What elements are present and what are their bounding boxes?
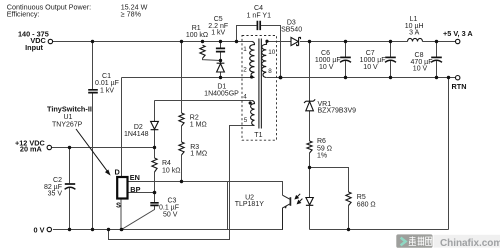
capacitor C1	[65, 21, 442, 206]
svg-text:TNY267P: TNY267P	[52, 121, 83, 128]
polarity dot primary	[250, 75, 253, 78]
junction: D1 anode at drain wire	[219, 76, 222, 79]
label R2	[159, 115, 207, 219]
junction: C1 at input rail	[91, 40, 94, 43]
label C4	[247, 5, 271, 20]
junction: D3 cathode node	[308, 40, 311, 43]
junction: C8 at +5V rail	[435, 40, 438, 43]
wire: +12V rail	[50, 147, 155, 149]
wire: C4 top loop primary to secondary	[237, 26, 281, 78]
wire: C5 vertical segments	[220, 42, 222, 61]
header text	[7, 2, 148, 18]
wire: C3 vertical and diagonal to source	[122, 193, 155, 230]
svg-text:R6: R6	[317, 138, 326, 145]
svg-text:C7: C7	[366, 50, 375, 57]
transformer T1 dashed box	[242, 36, 277, 141]
resistor R6	[307, 141, 312, 153]
svg-text:EN: EN	[130, 173, 140, 182]
capacitor C3	[150, 203, 158, 206]
capacitor C8 polarized	[431, 56, 442, 58]
wire: right riser RTN to secondary bottom rail	[448, 78, 450, 230]
opto LED	[306, 198, 313, 206]
svg-text:0 V: 0 V	[34, 226, 45, 235]
capacitor C4	[257, 21, 260, 30]
svg-text:C1: C1	[102, 73, 111, 80]
wire: C7 branch	[390, 42, 392, 78]
svg-text:10 V: 10 V	[413, 65, 428, 72]
svg-text:D: D	[115, 167, 120, 176]
label D3	[281, 19, 302, 33]
wire: feedback chain VR1 R6 LED vertical	[309, 42, 311, 230]
capacitor C5	[216, 48, 225, 51]
label C8	[411, 52, 433, 73]
diode D3 schottky	[291, 37, 301, 45]
opto phototransistor	[283, 195, 291, 229]
junction: C8 at RTN rail	[435, 76, 438, 79]
node: 0V terminal	[47, 227, 51, 231]
label VR1	[317, 101, 376, 208]
polarity dot secondary	[265, 40, 268, 43]
wire: secondary pin 10 to D3	[267, 41, 292, 43]
svg-text:5: 5	[244, 117, 248, 124]
svg-text:20 mA: 20 mA	[20, 145, 43, 154]
svg-text:1N4148: 1N4148	[124, 131, 149, 138]
wire: C2 branch vertical	[69, 148, 71, 184]
junction: R4 C3 at BP wire	[153, 191, 157, 195]
node: +12VDC terminal	[47, 145, 51, 149]
zener VR1	[304, 99, 315, 110]
transformer core	[259, 39, 262, 129]
svg-text:1 kV: 1 kV	[211, 29, 225, 36]
wire: bias return detour pin 5	[109, 126, 255, 240]
resistor R4	[152, 158, 157, 172]
svg-text:Chinafix.com: Chinafix.com	[440, 238, 500, 249]
wire: C8 branch	[436, 42, 438, 78]
wire: drain horizontal to transformer pin 2	[122, 77, 255, 79]
svg-text:R4: R4	[162, 160, 171, 167]
svg-text:0.1 µF: 0.1 µF	[159, 205, 179, 212]
label C5	[208, 16, 228, 36]
svg-text:1 nF Y1: 1 nF Y1	[247, 13, 271, 20]
svg-text:C3: C3	[168, 197, 177, 204]
wire: R6 node to R5	[310, 168, 349, 230]
junction: bias return at ground rail	[107, 228, 110, 231]
svg-text:4: 4	[243, 93, 247, 100]
resistor R1	[200, 45, 205, 58]
wire: output rail after L1 to +5V terminal	[423, 41, 456, 43]
wire: C6 branch	[345, 42, 347, 78]
transformer primary winding pins 1-2	[250, 42, 255, 78]
capacitor C2 polarized	[65, 183, 75, 185]
wire: C1 branch vertical	[92, 42, 94, 90]
wire: U1 S pin to ground rail	[120, 199, 122, 230]
capacitor C7 polarized	[385, 56, 396, 58]
wire: D1 vertical segments	[220, 61, 222, 78]
wire: D2 to +12V rail vertical	[154, 100, 156, 147]
svg-text:C8: C8	[415, 52, 424, 59]
svg-text:Input: Input	[25, 43, 43, 52]
junction: C2 at ground rail	[68, 228, 71, 231]
svg-text:8: 8	[268, 68, 272, 75]
junction: C4 at pin 8 RTN wire	[279, 76, 283, 80]
svg-text:Efficiency:: Efficiency:	[7, 9, 40, 18]
junction: C1 at ground rail	[91, 228, 94, 231]
junction: C4 at input rail	[235, 40, 238, 43]
watermark badge	[396, 234, 500, 248]
junction: S pin C3 at ground rail	[120, 228, 124, 232]
svg-text:D3: D3	[287, 19, 296, 26]
transformer bias winding pins 4-5	[251, 101, 255, 126]
opto emitter arrowhead	[284, 206, 287, 209]
svg-text:TLP181Y: TLP181Y	[235, 201, 265, 208]
wire: R4 vertical from +12V rail to BP junction	[154, 148, 156, 193]
svg-text:C6: C6	[321, 50, 330, 57]
junction: D2 R4 at +12V rail	[153, 146, 156, 149]
svg-text:SB540: SB540	[281, 26, 302, 33]
opto light arrows	[295, 194, 302, 204]
label D1	[204, 83, 239, 97]
wire: primary ground rail to opto emitter	[53, 209, 283, 230]
junction: C7 at +5V rail	[389, 40, 392, 43]
diode D1 cathode up	[151, 37, 316, 205]
svg-text:680 Ω: 680 Ω	[357, 201, 376, 208]
diode D2 cathode down	[151, 121, 159, 129]
wire: R1 bottom diagonal to clamp node	[203, 58, 221, 60]
svg-text:10 kΩ: 10 kΩ	[162, 167, 180, 174]
inductor L1	[408, 38, 423, 41]
wire: top input rail	[53, 41, 252, 43]
junction: R5 at secondary bottom rail	[347, 228, 350, 231]
svg-text:1N4005GP: 1N4005GP	[204, 91, 239, 98]
svg-text:1 MΩ: 1 MΩ	[190, 121, 207, 128]
wire: D3 cathode to output rail	[300, 41, 408, 43]
U1 label arrow	[76, 129, 109, 173]
label L1	[405, 16, 424, 36]
junction: C6 at +5V rail	[344, 40, 347, 43]
wire: bias winding pin 4 horizontal	[155, 100, 252, 102]
node: VDC input terminal	[48, 39, 52, 43]
svg-text:50 V: 50 V	[163, 212, 178, 219]
svg-text:10: 10	[268, 49, 276, 56]
svg-text:D1: D1	[217, 83, 226, 90]
junction: R6 R5 node	[308, 166, 311, 169]
junction: R3 at EN wire	[180, 180, 183, 183]
wire: secondary bottom rail	[310, 229, 449, 231]
U1 TinySwitch box	[117, 177, 127, 199]
svg-text:TinySwitch-II: TinySwitch-II	[47, 104, 92, 113]
junction: R2 at input rail	[180, 40, 183, 43]
resistor R5	[346, 192, 351, 206]
svg-text:D2: D2	[134, 124, 143, 131]
label R1	[186, 25, 208, 39]
svg-text:10 V: 10 V	[319, 64, 334, 71]
label U2 TLP181Y	[235, 195, 265, 208]
label C2	[44, 177, 62, 198]
junction: R1 at input rail	[201, 40, 204, 43]
label D2	[124, 124, 149, 138]
junction: C6 at RTN rail	[344, 76, 347, 79]
junction: clamp node R1 C5 D1	[219, 59, 222, 62]
node label: 140-375 VDC Input	[15, 29, 49, 234]
svg-text:U1: U1	[64, 114, 73, 121]
resistor R3	[179, 142, 184, 155]
capacitor C6 polarized	[340, 56, 351, 58]
terminal circles	[47, 39, 460, 231]
svg-text:59 Ω: 59 Ω	[317, 145, 332, 152]
label C6	[315, 50, 341, 71]
svg-text:3 A: 3 A	[409, 29, 419, 36]
polarity dot bias	[249, 101, 252, 104]
svg-text:T1: T1	[254, 132, 262, 139]
svg-text:C4: C4	[254, 5, 263, 12]
svg-text:35 V: 35 V	[48, 191, 63, 198]
wire: drain riser to U1 D pin	[121, 78, 123, 178]
svg-text:1 MΩ: 1 MΩ	[190, 151, 207, 158]
svg-text:0.01 µF: 0.01 µF	[95, 80, 119, 87]
svg-text:1 kV: 1 kV	[100, 88, 114, 95]
label C7	[360, 50, 386, 71]
wire: BP wire	[128, 192, 155, 194]
node: +5V output terminal	[456, 39, 460, 43]
svg-text:1%: 1%	[317, 153, 327, 160]
wire: U2 box left edge	[227, 182, 229, 230]
svg-text:BP: BP	[130, 185, 140, 194]
svg-text:≥ 78%: ≥ 78%	[121, 9, 142, 18]
svg-text:+5 V, 3 A: +5 V, 3 A	[443, 29, 473, 38]
junction: right riser at RTN rail	[447, 76, 450, 79]
CJK glyph blocks (xun wei wang)	[409, 236, 432, 245]
svg-text:S: S	[116, 200, 121, 209]
svg-text:R5: R5	[357, 194, 366, 201]
transformer secondary winding pins 10-8	[262, 42, 267, 78]
resistor R2	[179, 113, 184, 126]
junction: C5 at input rail	[219, 40, 222, 43]
wire: EN wire from U1 to optocoupler collector	[128, 182, 283, 196]
svg-text:RTN: RTN	[452, 82, 467, 91]
wire: RTN rail pin 8	[267, 77, 456, 79]
junction: C7 at RTN rail	[389, 76, 392, 79]
node: RTN terminal	[456, 76, 460, 80]
svg-text:2: 2	[243, 67, 247, 74]
junction: C2 at +12V rail	[68, 146, 71, 149]
wire: R2 R3 line-sense chain vertical	[181, 42, 183, 182]
svg-text:100 kΩ: 100 kΩ	[186, 32, 208, 39]
label C1	[95, 73, 119, 95]
svg-text:BZX79B3V9: BZX79B3V9	[318, 108, 357, 115]
svg-text:1: 1	[243, 46, 247, 53]
svg-text:10 V: 10 V	[363, 64, 378, 71]
